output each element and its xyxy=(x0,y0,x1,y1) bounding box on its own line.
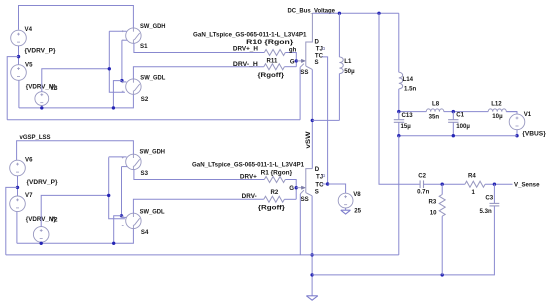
node C control junction xyxy=(107,194,110,197)
label 25 xyxy=(354,208,361,215)
svg-text:SW_GDH: SW_GDH xyxy=(140,23,166,30)
gate arrow bottom FET xyxy=(296,186,305,189)
label 1 of R4 xyxy=(472,189,476,196)
control notch to low rail xyxy=(113,81,122,108)
wire midpoint to left rail down (bottom) xyxy=(6,187,18,255)
svg-text:R10 {Rgon}: R10 {Rgon} xyxy=(246,39,294,46)
label {VDRV_N} of V7 xyxy=(26,216,57,223)
wire R3 top lead xyxy=(441,184,443,194)
switch S4 SW_GDL xyxy=(122,209,165,237)
label DRV-_H xyxy=(233,61,258,68)
svg-text:DRV+: DRV+ xyxy=(240,174,257,181)
node C13 top xyxy=(397,110,400,113)
label gh xyxy=(289,46,297,53)
label GaN_LTspice_GS-065-011-1-L_L3V4P1 (top) xyxy=(193,31,307,38)
gate arrow top FET xyxy=(296,59,305,62)
label {VBUS} xyxy=(522,130,546,137)
svg-text:S: S xyxy=(315,189,319,196)
node R3 bottom on rail xyxy=(441,273,444,276)
capacitor C3 xyxy=(490,203,500,206)
node V1 bottom xyxy=(515,134,518,137)
sense tap wire down xyxy=(379,13,420,184)
wire V1 bottom xyxy=(516,130,518,136)
control wire S1+ vertical xyxy=(109,31,125,92)
label 100u xyxy=(456,123,470,130)
label 35n xyxy=(429,114,440,121)
control stub S1+ xyxy=(109,30,126,32)
control stub S3- xyxy=(122,166,128,168)
wire S bottom down to ground xyxy=(311,196,313,296)
label R2 xyxy=(271,189,279,196)
voltage source V5 xyxy=(11,61,33,80)
switch S2 SW_GDL xyxy=(122,74,166,103)
svg-text:V4: V4 xyxy=(25,26,33,33)
svg-text:V5: V5 xyxy=(25,61,33,68)
wire V2- to low rail xyxy=(40,242,42,243)
svg-text:R1 {Rgon}: R1 {Rgon} xyxy=(261,170,293,177)
resistor R4 xyxy=(465,181,485,187)
svg-text:DRV-: DRV- xyxy=(242,193,257,200)
svg-text:C1: C1 xyxy=(456,112,464,119)
node thermal bus xyxy=(326,182,329,185)
label L1 xyxy=(344,58,352,65)
wire V2+ up and right to S3 control xyxy=(41,195,109,226)
label C13 xyxy=(402,112,414,119)
node B control junction xyxy=(120,79,123,82)
svg-text:V1: V1 xyxy=(524,111,532,118)
switch S1 SW_GDH xyxy=(122,23,166,50)
wire TC bottom to thermal bus xyxy=(322,183,328,185)
wire V5- down to drive low rail xyxy=(18,80,20,108)
wire switch node to L1 xyxy=(312,119,339,121)
label vGSP_LSS xyxy=(20,134,51,141)
node C3 top xyxy=(493,183,496,186)
node C13 bottom xyxy=(397,134,400,137)
wire midpoint to left rail down to SS return xyxy=(7,57,18,120)
label R10 {Rgon} xyxy=(246,39,294,46)
node DC bus / sense tap xyxy=(377,12,380,15)
label 1.5n xyxy=(404,85,416,92)
label {VDRV_N} of V5 xyxy=(26,83,57,90)
resistor R2 xyxy=(264,196,285,202)
main return rail xyxy=(6,254,399,256)
resistor R10 xyxy=(264,50,285,56)
node switch node vSW xyxy=(311,119,314,122)
wire R3 bottom lead xyxy=(441,216,443,275)
label R11 xyxy=(267,57,278,64)
svg-text:GaN_LTspice_GS-065-011-1-L_L3V: GaN_LTspice_GS-065-011-1-L_L3V4P1 xyxy=(193,31,307,38)
wire vGSP_LSS to S3 top xyxy=(17,141,134,161)
svg-text:D: D xyxy=(315,166,320,173)
label 5.3n xyxy=(480,208,492,215)
svg-text:15µ: 15µ xyxy=(401,123,412,130)
svg-text:R2: R2 xyxy=(271,189,279,196)
label 10 of R3 xyxy=(430,209,437,216)
wire L12 to V1 xyxy=(506,112,517,115)
drive low rail (bottom section) xyxy=(17,229,133,244)
node G1 gate xyxy=(290,58,298,65)
node V3- on low rail xyxy=(40,106,43,109)
wire S1 bottom to DRV+_H xyxy=(134,43,264,52)
svg-text:0.7n: 0.7n xyxy=(417,188,429,195)
inductor L8 xyxy=(426,109,444,112)
svg-text:L8: L8 xyxy=(432,101,440,108)
ground symbol main xyxy=(306,296,317,300)
label DRV+ xyxy=(240,174,257,181)
label L12 xyxy=(491,101,502,108)
wire R2 to S4 top DRV- xyxy=(133,199,263,213)
svg-text:S3: S3 xyxy=(141,170,149,177)
label {Rgoff} of R11 xyxy=(258,72,285,79)
label 10u xyxy=(492,113,503,120)
wire SS top return xyxy=(299,67,301,120)
node G2 gate xyxy=(289,185,298,192)
svg-text:C2: C2 xyxy=(418,173,426,180)
SS long return wire to left rail xyxy=(7,119,300,121)
svg-text:DRV-_H: DRV-_H xyxy=(233,61,258,68)
svg-text:GaN_LTspice_GS-065-011-1-L_L3V: GaN_LTspice_GS-065-011-1-L_L3V4P1 xyxy=(192,162,305,169)
label DC_Bus_Voltage xyxy=(288,8,336,15)
label {Rgoff} of R2 xyxy=(258,204,286,211)
node S on sense rail xyxy=(310,273,313,276)
node R3 top xyxy=(441,183,444,186)
voltage source V7 xyxy=(10,192,33,212)
label R3 xyxy=(429,199,437,206)
resistor R11 xyxy=(264,64,285,70)
svg-text:V7: V7 xyxy=(25,192,33,199)
wire gate to R2 xyxy=(284,198,296,200)
sense ground rail xyxy=(312,206,494,275)
svg-text:S2: S2 xyxy=(141,96,149,103)
wire thermal bus to V8 xyxy=(328,184,346,193)
control wire S1- vertical xyxy=(121,40,123,80)
svg-text:{Rgoff}: {Rgoff} xyxy=(258,72,285,79)
wire V4 top to S1 top xyxy=(19,6,134,30)
label DRV- xyxy=(242,193,257,200)
svg-text:10: 10 xyxy=(430,209,437,216)
resistor R1 xyxy=(264,177,285,183)
GaN FET bottom body xyxy=(300,169,312,196)
svg-text:vSW: vSW xyxy=(306,131,312,148)
capacitor C1 xyxy=(448,112,458,136)
capacitor C2 xyxy=(418,173,426,188)
voltage source V8 xyxy=(338,191,361,208)
svg-text:{VDRV_P}: {VDRV_P} xyxy=(27,179,59,186)
inductor L12 xyxy=(488,109,506,112)
voltage source V3 xyxy=(35,85,58,106)
label R4 xyxy=(468,173,476,180)
voltage source V2 xyxy=(33,216,58,242)
svg-text:L12: L12 xyxy=(491,101,502,108)
svg-text:1.5n: 1.5n xyxy=(404,85,416,92)
svg-text:V2: V2 xyxy=(50,216,58,223)
ground of V8 xyxy=(341,210,351,214)
control stub S2+ xyxy=(122,81,127,83)
svg-text:R11: R11 xyxy=(267,57,278,64)
pin labels top FET xyxy=(300,38,323,76)
wire TC top to thermal bus xyxy=(322,57,328,184)
DC bus top rail xyxy=(312,12,398,14)
TJ open pin square (top) xyxy=(323,48,325,50)
control stub S4+ xyxy=(122,216,127,218)
wire V3- to low rail xyxy=(41,106,43,108)
svg-text:DRV+_H: DRV+_H xyxy=(233,45,258,52)
wire R10 to gate node xyxy=(285,53,296,67)
node V6/V7 midpoint xyxy=(16,186,19,189)
output filter bottom bus xyxy=(399,135,517,137)
control stub S3+ xyxy=(109,156,127,158)
svg-text:SW_GDL: SW_GDL xyxy=(140,74,165,81)
svg-text:SS: SS xyxy=(301,196,309,203)
svg-text:R4: R4 xyxy=(468,173,476,180)
node V4/V5 midpoint xyxy=(17,55,20,58)
node notch on low rail (bottom) xyxy=(112,242,115,245)
label V_Sense xyxy=(514,182,540,189)
svg-text:50µ: 50µ xyxy=(344,68,355,75)
inductor L14 xyxy=(399,13,403,111)
wire S3 bottom to DRV+ xyxy=(134,170,264,180)
control wire S3- vertical xyxy=(121,167,123,216)
svg-text:R3: R3 xyxy=(429,199,437,206)
label DRV+_H xyxy=(233,45,258,52)
svg-text:S1: S1 xyxy=(140,43,148,50)
label {VDRV_P} of V4 xyxy=(25,48,57,55)
label R1 {Rgon} xyxy=(261,170,293,177)
voltage source V4 xyxy=(11,26,33,46)
wire R11 to S2 top DRV-_H xyxy=(133,67,263,79)
label GaN_LTspice_GS-065-011-1-L_L3V4P1 (bottom) xyxy=(192,162,305,169)
control wire S3+ vertical xyxy=(109,157,125,219)
pin labels bottom FET xyxy=(301,166,325,203)
wire gate to R11 xyxy=(284,66,296,68)
label 0.7n xyxy=(417,188,429,195)
node DC bus / L1 xyxy=(338,12,341,15)
svg-text:C3: C3 xyxy=(485,195,493,202)
svg-text:{VBUS}: {VBUS} xyxy=(522,130,546,137)
svg-text:35n: 35n xyxy=(429,114,440,121)
svg-text:L14: L14 xyxy=(403,76,414,83)
svg-text:5.3n: 5.3n xyxy=(480,208,492,215)
wire V7- down to drive low rail (bottom) xyxy=(16,212,18,244)
voltage source V1 xyxy=(509,111,532,130)
svg-text:SW_GDL: SW_GDL xyxy=(140,209,165,216)
control notch to low rail (bottom) xyxy=(114,216,122,244)
output filter top bus xyxy=(399,111,517,113)
label 50u xyxy=(344,68,355,75)
wire R4 to V_Sense xyxy=(485,183,512,185)
svg-text:G: G xyxy=(290,58,295,65)
node A control junction xyxy=(108,67,111,70)
wire switch node vertical xyxy=(311,69,313,168)
node D control junction xyxy=(120,214,123,217)
svg-text:100µ: 100µ xyxy=(456,123,470,130)
node C1 top xyxy=(452,110,455,113)
wire SS bottom return xyxy=(299,194,301,255)
wire C3 top lead xyxy=(493,184,495,203)
svg-text:S4: S4 xyxy=(141,229,149,236)
node notch on low rail xyxy=(112,106,115,109)
wire V8 bottom to ground xyxy=(345,208,347,210)
svg-text:V_Sense: V_Sense xyxy=(514,182,540,189)
svg-text:V6: V6 xyxy=(25,157,33,164)
svg-text:G: G xyxy=(289,185,294,192)
drive low rail (top section) xyxy=(19,94,133,108)
label 15u xyxy=(401,123,412,130)
svg-text:C13: C13 xyxy=(402,112,414,119)
node C1 bottom xyxy=(452,134,455,137)
label {VDRV_P} of V6 xyxy=(27,179,59,186)
svg-text:10µ: 10µ xyxy=(492,113,503,120)
label L8 xyxy=(432,101,440,108)
svg-text:gh: gh xyxy=(289,46,297,53)
switch S3 SW_GDH xyxy=(122,149,165,177)
svg-text:D: D xyxy=(315,38,320,45)
wire V6- to V7+ xyxy=(17,176,19,196)
label vSW (rotated) xyxy=(306,131,312,148)
svg-text:S: S xyxy=(315,59,319,66)
svg-text:TJ: TJ xyxy=(316,174,323,181)
capacitor C13 xyxy=(394,112,404,136)
node V2- on low rail xyxy=(40,242,43,245)
control stub S1- xyxy=(122,39,127,41)
label C3 xyxy=(485,195,493,202)
GaN FET top body xyxy=(300,13,312,69)
svg-text:SW_GDH: SW_GDH xyxy=(140,149,166,156)
inductor L1 xyxy=(339,13,343,120)
resistor R3 xyxy=(439,195,445,217)
label C1 xyxy=(456,112,464,119)
svg-text:vGSP_LSS: vGSP_LSS xyxy=(20,134,51,141)
TJ open pin square (bottom) xyxy=(323,175,325,177)
svg-text:SS: SS xyxy=(300,69,308,76)
wire V3+ up and right to S1 control xyxy=(42,69,110,92)
svg-text:L1: L1 xyxy=(344,58,352,65)
label L14 xyxy=(403,76,414,83)
wire R1 to gate node (bottom) xyxy=(285,180,296,200)
wire V4- to V5+ xyxy=(18,46,20,65)
wire C2 to R4 xyxy=(424,183,465,185)
svg-text:{Rgoff}: {Rgoff} xyxy=(258,204,286,211)
output return wire down xyxy=(398,136,400,255)
svg-text:V3: V3 xyxy=(50,85,58,92)
node S on return rail xyxy=(310,253,313,256)
voltage source V6 xyxy=(10,157,33,176)
svg-text:V8: V8 xyxy=(353,191,361,198)
svg-text:25: 25 xyxy=(354,208,361,215)
svg-text:{VDRV_P}: {VDRV_P} xyxy=(25,48,57,55)
